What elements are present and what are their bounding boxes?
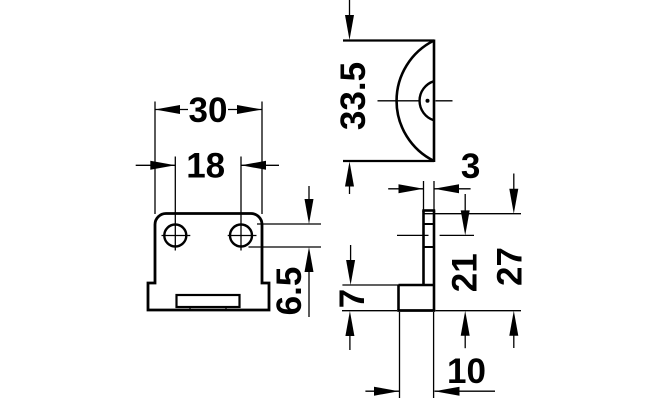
dim 33.5 upper arrow — [345, 15, 354, 40]
svg-text:10: 10 — [447, 352, 486, 391]
dim 7 lower leader — [349, 336, 351, 350]
svg-text:33.5: 33.5 — [334, 62, 373, 130]
dim 18 arrow left — [150, 161, 175, 170]
front view bottom slot — [177, 295, 240, 307]
dim 10 extension left — [399, 312, 401, 398]
dim 10 arrow left — [374, 387, 399, 396]
dim 27 upper leader — [513, 174, 515, 191]
dim 6.5 extension top — [257, 223, 321, 225]
side view wall left edge — [422, 211, 425, 286]
svg-text:21: 21 — [445, 253, 484, 292]
hole left horizontal centerline — [162, 235, 191, 237]
bottom extension line right of base — [435, 310, 521, 312]
dim 6.5 upper leader — [308, 186, 310, 202]
slot tab tick right — [225, 307, 227, 311]
dim 27 extension top — [424, 213, 522, 215]
top view outer arc — [397, 41, 434, 162]
svg-text:7: 7 — [333, 289, 372, 308]
dim 7 upper leader — [350, 245, 352, 261]
top view top edge — [343, 39, 434, 41]
svg-text:3: 3 — [461, 147, 480, 186]
dim 3 leader right — [434, 188, 471, 190]
side view base bottom edge — [397, 309, 435, 312]
dim 27 lower arrow — [509, 311, 518, 336]
dim 7 upper arrow — [346, 260, 355, 285]
dim 21 extension top — [440, 234, 474, 236]
dim 30 extension right — [261, 102, 263, 215]
dim 10 arrow right — [435, 387, 460, 396]
side view hole centerline stub — [397, 234, 429, 236]
dim 18 arrow right — [241, 161, 266, 170]
svg-text:27: 27 — [491, 247, 530, 286]
dim 10 leader right — [435, 390, 496, 392]
dim 3 arrow left — [399, 184, 424, 193]
side view wall right edge — [433, 211, 436, 311]
dim 6.5 upper arrow — [305, 199, 314, 224]
dim 21 upper leader — [464, 194, 466, 212]
side view base top edge — [399, 284, 435, 287]
side view wall crossbar lower — [424, 246, 435, 248]
dim 33.5 upper leader — [349, 0, 351, 16]
dim 6.5 lower arrow — [305, 247, 314, 272]
top view centerline dot — [426, 99, 430, 103]
slot tab tick left — [189, 307, 191, 311]
hole right horizontal centerline — [228, 235, 257, 237]
dim 30 arrow right — [237, 105, 262, 114]
dim 10 leader left — [365, 390, 399, 392]
front view body outline — [148, 214, 269, 311]
top view bottom edge — [343, 160, 434, 162]
svg-text:18: 18 — [186, 146, 225, 185]
dim 30 line left — [155, 109, 188, 111]
dim 18 line left — [136, 164, 176, 166]
hole left vertical centerline / dim-18 extension — [174, 157, 176, 251]
side view wall crossbar upper — [424, 223, 435, 225]
dim 33.5 lower leader — [349, 184, 351, 194]
dim 6.5 extension bottom — [249, 246, 322, 248]
top view centerline dash left — [378, 100, 421, 102]
dim 30 line right — [228, 109, 262, 111]
hole left — [164, 225, 186, 247]
top view centerline dash right — [436, 100, 453, 102]
hole right — [230, 225, 252, 247]
dim 30 arrow left — [155, 105, 180, 114]
dim 27 lower leader — [513, 334, 515, 348]
svg-text:30: 30 — [189, 91, 228, 130]
side view wall top edge — [422, 209, 435, 212]
dim 7 lower arrow — [345, 311, 354, 336]
bottom extension line left of base — [342, 310, 397, 312]
dim 27 upper arrow — [509, 189, 518, 214]
hole right vertical centerline / dim-18 extension — [240, 157, 242, 251]
side view base left edge — [397, 285, 400, 310]
dim 21 lower leader — [464, 334, 466, 348]
dim 33.5 lower arrow — [345, 162, 354, 187]
top view inner arc — [420, 81, 434, 120]
dim 3 leader left — [388, 188, 423, 190]
dim 21 upper arrow — [461, 210, 470, 235]
dim 3 arrow right — [434, 184, 459, 193]
dim 21 lower arrow — [461, 311, 470, 336]
top view right edge — [433, 40, 436, 163]
dim 6.5 lower leader — [308, 270, 310, 317]
dim 30 extension left — [154, 102, 156, 215]
dim 7 extension top — [342, 284, 398, 286]
dim 10 extension right — [433, 312, 435, 398]
svg-text:6.5: 6.5 — [270, 267, 309, 316]
dim 3 extension left — [423, 181, 425, 210]
dim 3 extension right — [433, 181, 435, 210]
dim 18 line right — [241, 164, 279, 166]
